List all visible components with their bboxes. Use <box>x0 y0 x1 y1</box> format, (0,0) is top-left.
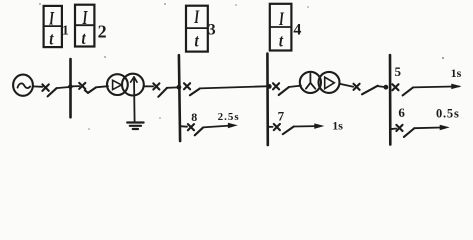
svg-text:1: 1 <box>62 23 69 38</box>
svg-text:3: 3 <box>208 21 216 38</box>
svg-text:0.5s: 0.5s <box>436 106 460 120</box>
svg-text:I: I <box>278 7 284 30</box>
svg-text:I: I <box>48 9 54 29</box>
svg-text:8: 8 <box>191 110 197 124</box>
svg-text:4: 4 <box>293 21 301 38</box>
svg-text:6: 6 <box>398 105 405 120</box>
svg-text:I: I <box>193 8 199 28</box>
svg-text:t: t <box>49 28 54 48</box>
svg-text:I: I <box>82 6 88 29</box>
svg-text:5: 5 <box>395 64 402 79</box>
svg-text:1s: 1s <box>451 66 462 80</box>
svg-text:7: 7 <box>278 109 285 124</box>
svg-text:t: t <box>279 30 284 50</box>
svg-text:2: 2 <box>98 21 107 41</box>
svg-text:1s: 1s <box>332 119 343 133</box>
svg-text:2.5s: 2.5s <box>218 111 240 123</box>
svg-text:t: t <box>82 28 87 48</box>
